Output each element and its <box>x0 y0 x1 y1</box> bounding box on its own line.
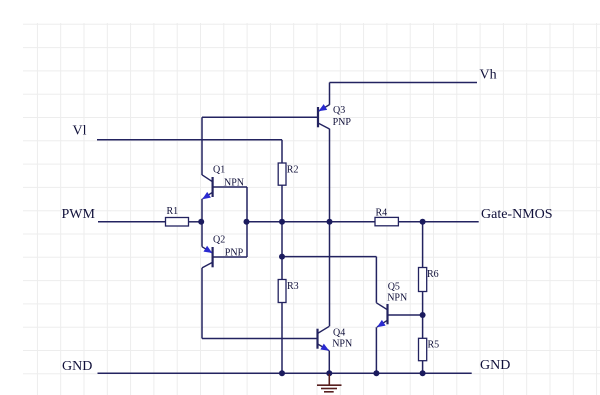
resistor R4 <box>375 207 398 225</box>
wire PWM to R1 <box>98 221 166 223</box>
svg-text:R1: R1 <box>167 206 179 217</box>
transistor Q5 <box>376 282 407 328</box>
svg-text:GND: GND <box>62 359 92 374</box>
wire R2 bottom to rail <box>281 185 283 222</box>
wire R3 bottom to GND rail <box>281 303 283 374</box>
wire down to Q5 collector slant <box>375 257 377 303</box>
wire R6 bottom to Q5 base node <box>422 292 424 316</box>
wire Vh to Q3 emitter <box>329 83 331 105</box>
svg-text:GND: GND <box>480 358 510 373</box>
wire Q2 base right <box>213 256 247 258</box>
svg-text:Vh: Vh <box>480 67 497 82</box>
svg-text:R5: R5 <box>428 340 440 351</box>
node Q4 emitter-GND <box>326 370 332 376</box>
wire Q1 base right <box>213 186 247 188</box>
transistor Q2 <box>202 234 244 268</box>
svg-text:R2: R2 <box>287 164 299 175</box>
svg-text:R4: R4 <box>376 207 388 218</box>
wire R1 to emitter node <box>189 221 202 223</box>
svg-text:PNP: PNP <box>333 117 352 128</box>
wire node to Q2 emitter <box>201 222 203 247</box>
svg-text:R6: R6 <box>427 269 439 280</box>
wire Q1 base down to PWM rail <box>246 187 248 257</box>
wire base rail to R4 <box>247 221 376 223</box>
transistor Q1 <box>202 164 244 199</box>
node R1-emitters <box>198 219 204 225</box>
node R2-rail <box>279 219 285 225</box>
wire Q4 emitter to GND rail <box>328 351 330 374</box>
wire to Q4 base <box>202 338 318 340</box>
junction dots <box>198 219 425 376</box>
svg-text:PWM: PWM <box>62 207 96 222</box>
node R3-GND <box>279 370 285 376</box>
wire Vh horizontal <box>330 82 478 84</box>
wire R5 bottom to GND rail <box>422 361 424 374</box>
wire Q3 base to node at x=202 <box>202 116 318 118</box>
svg-text:NPN: NPN <box>224 178 244 189</box>
wire R4 node to R6 top <box>422 222 424 268</box>
wire Q2 collector down <box>201 268 203 339</box>
svg-text:PNP: PNP <box>225 248 244 259</box>
svg-text:Q3: Q3 <box>333 105 345 116</box>
node R5-GND <box>420 370 426 376</box>
svg-text:Q4: Q4 <box>333 328 345 339</box>
wire node down to Q1 collector <box>201 117 203 175</box>
svg-text:R3: R3 <box>287 281 299 292</box>
node Q5 emitter-GND <box>373 370 379 376</box>
resistor R2 <box>278 163 298 185</box>
node bases-rail <box>244 219 250 225</box>
svg-text:Q2: Q2 <box>213 234 225 245</box>
wire node B to R3 top <box>281 257 283 280</box>
wire rail down to node B <box>281 222 283 257</box>
node R2R3-Q5 collector <box>279 254 285 260</box>
svg-text:NPN: NPN <box>332 339 352 350</box>
wire GND rail <box>98 372 472 374</box>
transistor Q4 <box>318 326 353 350</box>
resistor R6 <box>419 268 439 292</box>
wire Q5 base node to R5 top <box>422 315 424 338</box>
node rail-collector column <box>327 219 333 225</box>
svg-text:Q1: Q1 <box>213 164 225 175</box>
wire Vl horizontal <box>97 139 282 141</box>
svg-text:NPN: NPN <box>387 292 407 303</box>
transistor Q3 <box>318 104 351 129</box>
resistor R5 <box>419 338 440 360</box>
resistor R1 <box>166 206 189 226</box>
wire node B to Q5 collector <box>282 256 376 258</box>
ground <box>317 374 342 392</box>
wire Vl corner down to R2 top <box>281 140 283 163</box>
svg-text:Vl: Vl <box>73 124 87 139</box>
svg-text:Q5: Q5 <box>388 282 400 293</box>
node Q5 base-R5-R6 <box>420 312 426 318</box>
wire Q5 emitter to GND rail <box>375 327 377 373</box>
wire R4 to Gate-NMOS <box>399 221 479 223</box>
wire Q1 emitter down <box>201 199 203 222</box>
svg-text:Gate-NMOS: Gate-NMOS <box>481 207 553 222</box>
node R4-R6-gate <box>420 219 426 225</box>
wire Q3 collector down to Q4 collector <box>329 129 331 326</box>
wire Q5 base right <box>388 314 423 316</box>
resistor R3 <box>278 280 298 303</box>
